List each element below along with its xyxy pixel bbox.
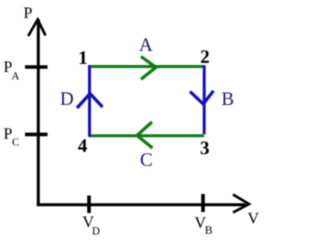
label VB main V bbox=[195, 217, 206, 228]
label VB subscript B bbox=[205, 226, 212, 234]
tick VD on V axis bbox=[87, 196, 91, 214]
label state 3 bbox=[201, 142, 209, 155]
P axis arrowhead bbox=[28, 20, 45, 37]
process D edge (left, 4 to 1) bbox=[88, 65, 91, 137]
label VD subscript D bbox=[92, 227, 99, 234]
process B edge (right, 2 to 3) bbox=[203, 65, 206, 134]
label PC subscript C bbox=[12, 138, 18, 145]
label process A bbox=[139, 38, 152, 51]
arrowhead C (leftward on bottom edge) bbox=[137, 122, 153, 148]
label V (V axis) bbox=[248, 213, 259, 224]
arrowhead A (rightward on top edge) bbox=[141, 57, 156, 80]
label PA subscript A bbox=[12, 72, 20, 79]
V axis (horizontal line) bbox=[37, 203, 246, 206]
arrowhead B (downward on right edge) bbox=[190, 91, 214, 104]
process A edge (top, 1 to 2) bbox=[88, 65, 204, 68]
label state 4 bbox=[78, 139, 87, 152]
tick PC on P axis bbox=[25, 133, 48, 137]
label state 1 bbox=[80, 51, 87, 64]
process C edge (bottom, 3 to 4) bbox=[89, 134, 204, 137]
label VD main V bbox=[83, 217, 94, 228]
label process B bbox=[222, 93, 233, 105]
tick VB on V axis bbox=[201, 194, 205, 212]
tick PA on P axis bbox=[25, 65, 48, 69]
label state 2 bbox=[201, 50, 209, 63]
arrowhead D (upward on left edge) bbox=[77, 94, 103, 109]
label process C bbox=[141, 153, 152, 166]
label PC main P bbox=[4, 128, 12, 138]
P axis (vertical line) bbox=[37, 19, 40, 206]
V axis arrowhead bbox=[233, 195, 249, 213]
label PA main P bbox=[4, 62, 12, 72]
label P (P axis) bbox=[24, 8, 32, 18]
label process D bbox=[61, 92, 73, 104]
